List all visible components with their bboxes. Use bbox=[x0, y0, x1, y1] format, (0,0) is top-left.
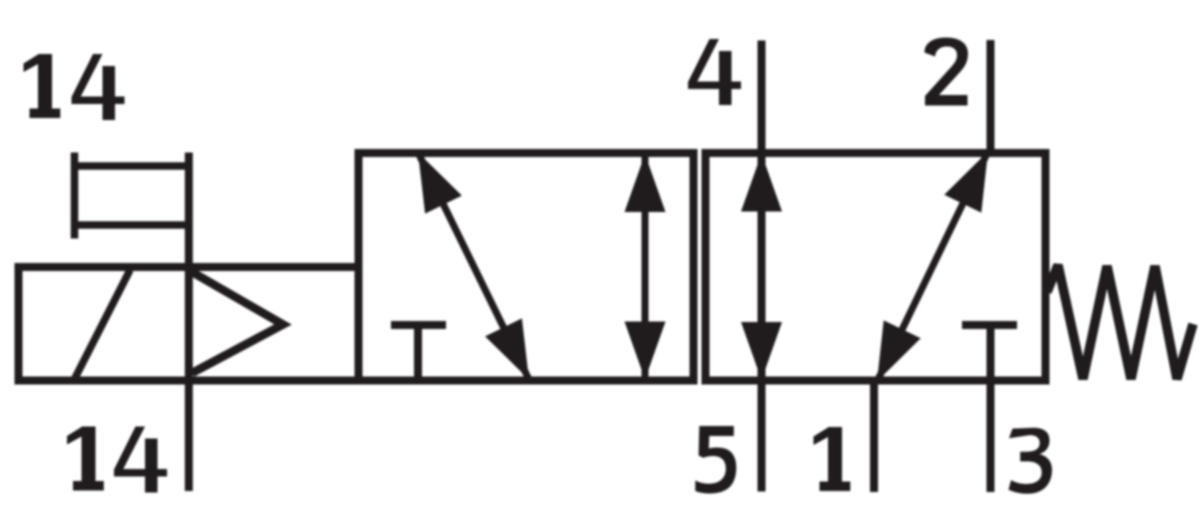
valve body left position box bbox=[359, 153, 694, 381]
label 1 bbox=[814, 427, 851, 491]
solenoid coil diagonal bbox=[75, 270, 130, 378]
pilot line / solenoid divider (node 14) bbox=[185, 153, 193, 492]
flow arrow 4-5 (right box vertical, double headed) bbox=[741, 154, 782, 381]
label 14 (bottom) bbox=[67, 427, 167, 493]
pilot port 14 bracket symbol bbox=[71, 153, 193, 239]
return spring bbox=[1047, 265, 1193, 379]
label 4 bbox=[688, 39, 741, 105]
blocked port T symbol (right box, port 3) bbox=[962, 321, 1017, 329]
flow arrow 1-4 (left box diagonal, double headed) bbox=[418, 153, 529, 380]
port 2 line bbox=[987, 40, 995, 153]
flow arrow 2-3 (left box vertical, double headed) bbox=[625, 154, 666, 380]
label 5 bbox=[695, 426, 736, 494]
valve body right position box bbox=[706, 153, 1046, 381]
port 3 line (continuous with T stem) bbox=[987, 325, 995, 492]
port 4 / port 5 line (through valve) bbox=[758, 41, 766, 492]
port 1 line bbox=[870, 381, 878, 493]
label 3 bbox=[1009, 428, 1053, 494]
label 14 (top pilot port) bbox=[24, 54, 125, 120]
label 2 bbox=[925, 38, 969, 106]
flow arrow 1-2 (right box diagonal, double headed) bbox=[877, 152, 988, 382]
solenoid actuator box bbox=[19, 267, 359, 381]
pilot triangle bbox=[192, 272, 283, 373]
blocked port T symbol (left box, port 5) bbox=[391, 325, 446, 378]
